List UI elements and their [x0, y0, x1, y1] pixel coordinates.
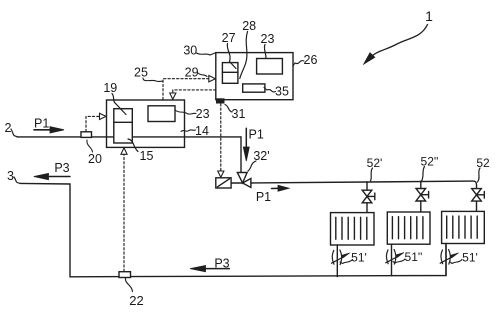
svg-text:P1: P1 — [256, 190, 271, 204]
radiator 51' body — [331, 213, 375, 245]
svg-text:52: 52 — [476, 156, 490, 170]
wire dashed control 20 to 14 — [86, 116, 100, 131]
svg-text:26: 26 — [304, 53, 318, 67]
wire leader arrow for 1 — [372, 25, 428, 57]
wire dashed box26 to box14 — [173, 90, 216, 93]
box 35 — [243, 84, 265, 92]
svg-text:30: 30 — [183, 44, 197, 58]
control unit 26 — [216, 53, 293, 100]
sensor 20 — [81, 132, 92, 138]
svg-text:P3: P3 — [54, 161, 69, 175]
valve 32' (3-way) — [237, 173, 247, 184]
svg-text:25: 25 — [134, 66, 148, 80]
svg-text:23: 23 — [261, 32, 275, 46]
svg-text:15: 15 — [140, 149, 154, 163]
display 23 inside 14 — [148, 106, 175, 122]
controller box 14 — [107, 100, 185, 147]
connector 31 black square — [216, 98, 225, 103]
wire radiator 3 return drop — [445, 244, 447, 276]
svg-text:52'': 52'' — [421, 155, 439, 169]
restrictor 51 — [440, 250, 458, 265]
svg-text:P1: P1 — [34, 117, 49, 131]
sensor 22 on return — [119, 272, 131, 278]
svg-text:14: 14 — [195, 124, 209, 138]
svg-text:19: 19 — [103, 81, 117, 95]
svg-text:P1: P1 — [249, 128, 264, 142]
svg-text:27: 27 — [222, 31, 236, 45]
display 23 in box 26 — [257, 59, 283, 75]
svg-text:29: 29 — [185, 66, 199, 80]
svg-text:51': 51' — [462, 251, 478, 265]
component 19/15 tall box — [114, 109, 133, 143]
wire return line 3 — [20, 183, 446, 276]
sensor 27 box — [222, 63, 238, 84]
svg-text:51': 51' — [351, 251, 367, 265]
restrictor 51' — [332, 250, 350, 265]
wire radiator 2 return drop — [391, 244, 393, 276]
svg-text:35: 35 — [275, 85, 289, 99]
svg-text:52': 52' — [367, 156, 383, 170]
svg-text:1: 1 — [425, 8, 433, 24]
svg-text:20: 20 — [88, 152, 102, 166]
svg-text:2: 2 — [5, 121, 12, 135]
wire dashed 22 up to box 14 — [123, 154, 125, 271]
svg-text:22: 22 — [129, 293, 143, 308]
restrictor 51'' — [386, 250, 404, 265]
actuator box of valve 32' — [216, 178, 231, 188]
wire dashed 31 down to actuator — [220, 104, 222, 171]
wire pipe through box 14 — [107, 136, 185, 138]
radiator 51 body — [442, 211, 485, 243]
svg-text:51'': 51'' — [405, 250, 423, 264]
wire pipe corner down to valve 32' — [240, 137, 242, 173]
wire radiator 1 return drop — [336, 245, 338, 277]
svg-text:28: 28 — [242, 19, 256, 33]
svg-text:31: 31 — [232, 107, 246, 121]
wire outlet pipe to radiators — [251, 181, 477, 189]
radiator 51'' body — [387, 212, 430, 244]
wire supply pipe 2 — [17, 136, 241, 138]
svg-text:3: 3 — [7, 169, 14, 183]
svg-text:23: 23 — [196, 107, 210, 121]
